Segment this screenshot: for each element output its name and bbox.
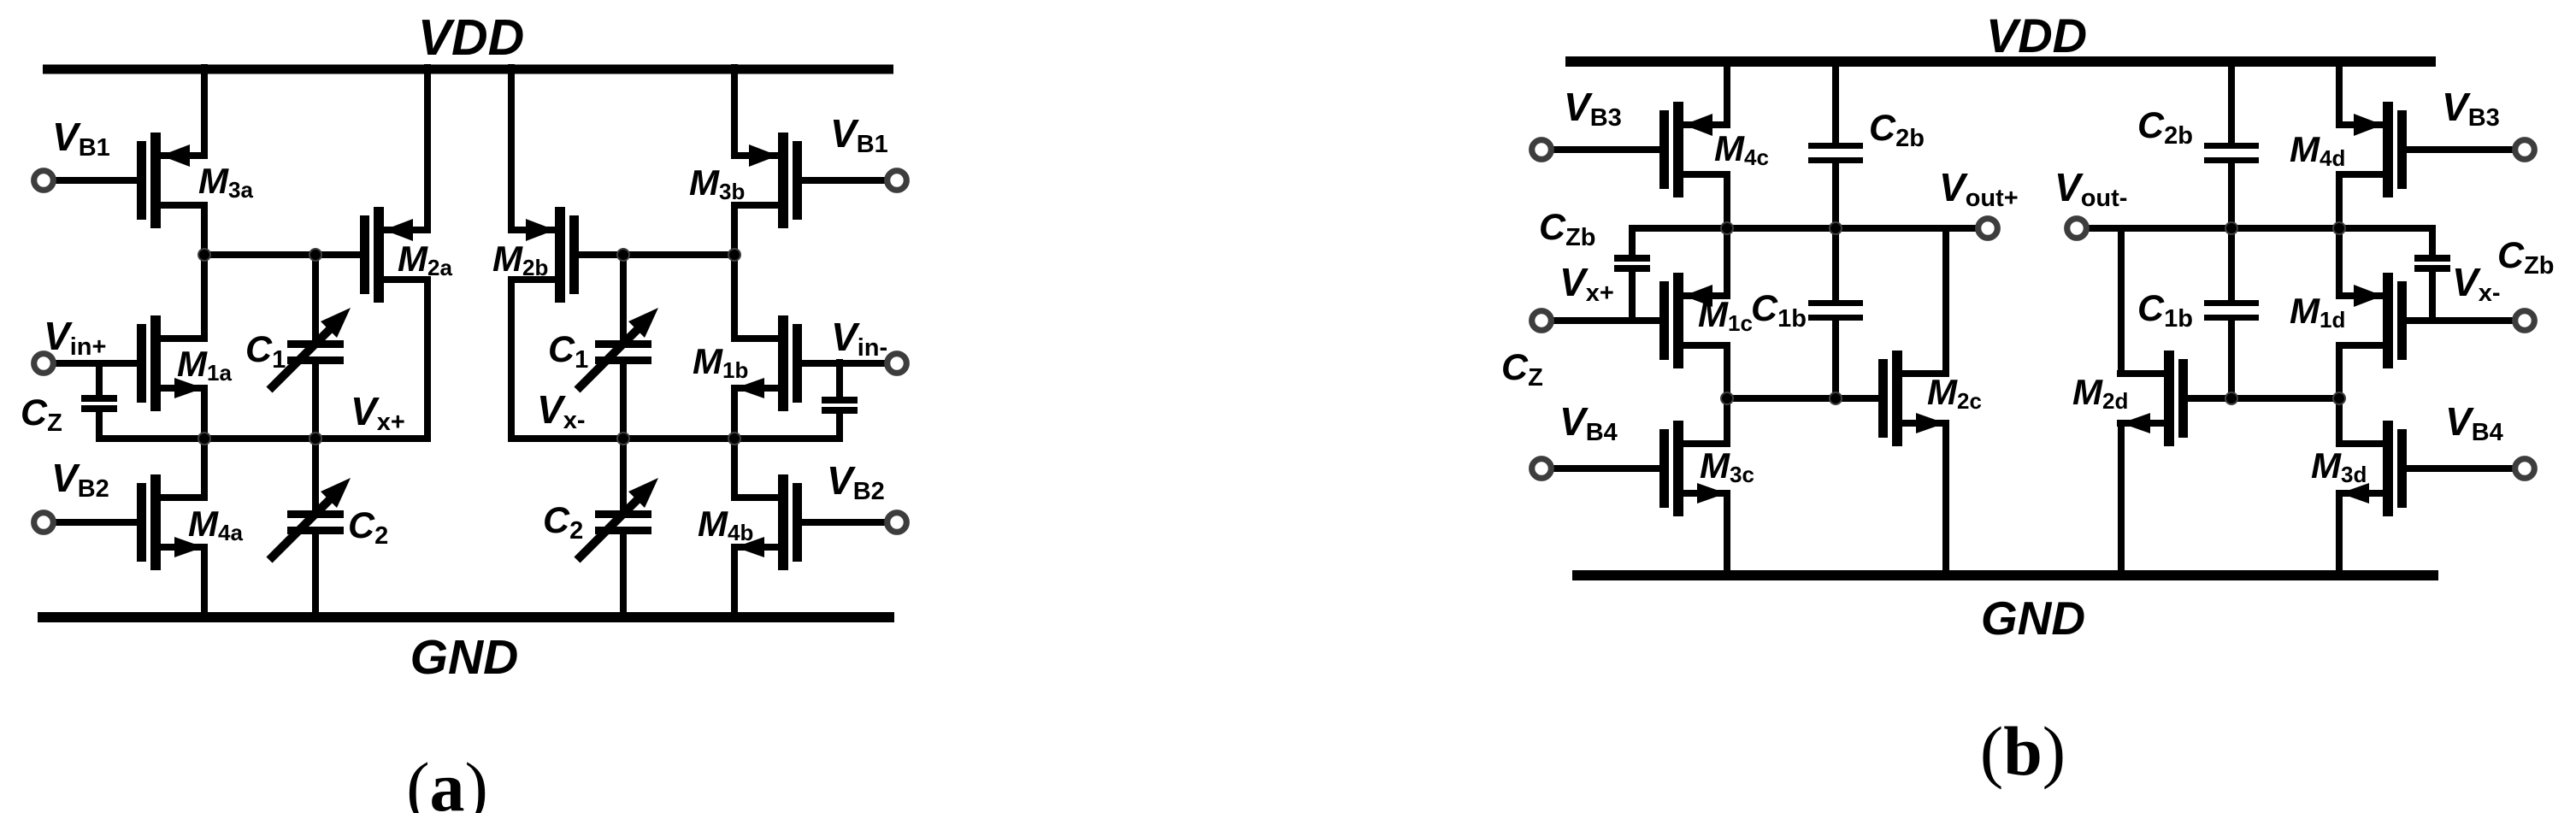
terminal Vx+ (b) <box>1532 311 1552 331</box>
junction node A7 Vx- (729,513) <box>617 433 629 445</box>
wire M4d gate lead <box>2407 146 2525 153</box>
wire CZb right to Vx- lead <box>2429 270 2436 324</box>
wire node row M3a-M2a gate (left) <box>201 251 360 258</box>
svg-text:VB2: VB2 <box>51 456 109 503</box>
wire M3c source to GND <box>1724 490 1730 580</box>
junction node A6 Vx+ (369,513) <box>309 433 321 445</box>
wire M3d source to GND <box>2336 490 2343 580</box>
ground rail GND (a) <box>38 612 894 622</box>
svg-text:M2b: M2b <box>492 239 548 280</box>
svg-text:VB3: VB3 <box>1564 85 1622 132</box>
wire M1d gate lead (Vx-) <box>2407 317 2525 324</box>
svg-text:VB4: VB4 <box>1559 399 1618 446</box>
svg-text:C2b: C2b <box>1869 108 1925 152</box>
capacitor C2b right <box>2204 143 2259 163</box>
svg-text:Vx-: Vx- <box>537 387 585 434</box>
svg-text:Vx+: Vx+ <box>1559 260 1614 307</box>
junction node A5 Vx+ (239,513) <box>198 433 210 445</box>
svg-text:GND: GND <box>1981 592 2085 645</box>
wire C1 left to C2 left <box>312 364 319 511</box>
wire node Vx+ row <box>96 435 431 442</box>
junction node B2 (2147,267) <box>1830 222 1842 234</box>
wire M2b drain to node Vx- <box>508 276 515 440</box>
terminal Vin- <box>887 354 907 374</box>
svg-text:M4a: M4a <box>188 504 243 545</box>
svg-text:C1: C1 <box>548 329 588 374</box>
wire CZb left to Vx+ lead <box>1629 270 1636 324</box>
power rail VDD (a) <box>43 65 893 74</box>
svg-text:M3b: M3b <box>689 162 745 204</box>
svg-text:Vin-: Vin- <box>831 315 887 362</box>
terminal VB3 right <box>2515 140 2535 160</box>
svg-text:VDD: VDD <box>1986 9 2087 62</box>
svg-text:VB1: VB1 <box>830 111 888 158</box>
wire M1a gate lead (Vin+) <box>44 360 137 367</box>
capacitor CZb right <box>2414 255 2450 272</box>
wire M4a gate lead <box>44 519 137 526</box>
junction node B6 (2147,466) <box>1830 392 1842 404</box>
transistor M1c (PMOS) <box>1659 273 1730 368</box>
capacitor C2b left <box>1808 143 1863 163</box>
capacitor C1b left <box>1808 300 1863 321</box>
svg-text:CZ: CZ <box>21 392 62 437</box>
transistor M3a (PMOS) <box>137 133 208 228</box>
capacitor C1b right <box>2204 300 2259 321</box>
wire CZ bottom to node Vx+ row <box>96 412 103 442</box>
wire Vout- row to M2d drain <box>2118 225 2125 377</box>
junction node B8 (2736,466) <box>2333 392 2345 404</box>
terminal Vx- (b) <box>2515 311 2535 331</box>
transistor M3b (PMOS) <box>731 133 802 228</box>
wire VDD to M2b source <box>508 64 515 233</box>
wire M3d gate lead <box>2407 465 2525 472</box>
wire Vin- to CZ right top <box>836 359 843 397</box>
varactor C2 left <box>269 478 351 560</box>
wire M1c gate lead (Vx+) <box>1541 317 1659 324</box>
wire row2 right (M2d gate) <box>2188 395 2343 402</box>
wire CZ right bottom to node Vx- row <box>836 414 843 442</box>
wire M1a source to M4a drain <box>201 385 208 501</box>
junction node A1 (239,298) <box>198 249 210 261</box>
transistor M2c (NMOS) <box>1878 351 1949 446</box>
wire node Vout+ row <box>1629 225 1976 232</box>
wire VDD to M4c source <box>1724 56 1730 128</box>
svg-text:CZ: CZ <box>1501 347 1543 392</box>
wire VDD to M3a drain <box>201 64 208 159</box>
junction node A8 Vx- (861,513) <box>728 433 740 445</box>
wire M1c drain to M3c drain <box>1724 342 1730 447</box>
terminal VB3 left <box>1532 140 1552 160</box>
capacitor CZ left <box>81 395 117 412</box>
svg-text:C1b: C1b <box>2137 288 2193 333</box>
transistor M3d (NMOS) <box>2336 421 2407 516</box>
capacitor CZ right <box>822 397 858 414</box>
transistor M1a (NMOS) <box>137 315 208 411</box>
wire C2 right to GND <box>620 534 627 622</box>
svg-text:(a): (a) <box>406 748 488 813</box>
svg-text:Vx+: Vx+ <box>351 389 405 436</box>
svg-text:Vout+: Vout+ <box>1939 165 2019 212</box>
svg-text:M4c: M4c <box>1714 128 1769 170</box>
transistor M4b (NMOS) <box>731 474 802 570</box>
svg-text:GND: GND <box>410 630 519 685</box>
wire M3b gate lead <box>802 177 897 184</box>
junction node B1 (2020,267) <box>1721 222 1733 234</box>
svg-text:VB4: VB4 <box>2445 399 2503 446</box>
svg-text:VDD: VDD <box>418 9 525 66</box>
wire M4c gate lead <box>1541 146 1659 153</box>
transistor M1d (PMOS) <box>2336 273 2407 368</box>
varactor C2 right <box>577 478 658 560</box>
transistor M2b (PMOS) <box>508 207 579 303</box>
wire row1 to C1 right <box>620 251 627 340</box>
wire Vout+ row to M2c drain <box>1942 225 1949 377</box>
svg-text:(b): (b) <box>1980 712 2066 790</box>
terminal VB1 left <box>34 171 54 191</box>
wire VDD to M3b drain <box>731 64 738 159</box>
svg-text:M2d: M2d <box>2072 372 2128 414</box>
junction node B4 (2736,267) <box>2333 222 2345 234</box>
wire M3b source to M1b drain <box>731 202 738 342</box>
wire VDD to C2b left <box>1832 56 1839 144</box>
terminal Vin+ <box>34 354 54 374</box>
terminal VB4 left <box>1532 459 1552 479</box>
power rail VDD (b) <box>1565 56 2436 67</box>
wire M2c source to GND <box>1942 420 1949 580</box>
transistor M4d (PMOS) <box>2336 102 2407 197</box>
wire M4d drain to M1d source <box>2336 171 2343 299</box>
wire M4b gate lead <box>802 519 897 526</box>
wire VDD to M2a source <box>424 64 431 233</box>
wire M4b source to GND <box>731 544 738 622</box>
transistor M3c (NMOS) <box>1659 421 1730 516</box>
transistor M2a (PMOS) <box>360 207 431 303</box>
wire VDD to C2b right <box>2228 56 2235 144</box>
svg-text:CZb: CZb <box>2497 235 2555 280</box>
terminal VB4 right <box>2515 459 2535 479</box>
junction node A2 (369,298) <box>309 249 321 261</box>
wire Vout+ row to CZb left <box>1629 225 1636 256</box>
svg-text:VB3: VB3 <box>2442 85 2500 132</box>
svg-text:Vx-: Vx- <box>2452 260 2500 307</box>
ground rail GND (b) <box>1572 570 2438 580</box>
wire M3a source to M1a drain <box>201 202 208 342</box>
svg-text:C1: C1 <box>245 329 286 374</box>
wire C2 left to GND <box>312 534 319 622</box>
varactor C1 left <box>269 308 351 390</box>
wire Vout- row to CZb right <box>2429 225 2436 256</box>
svg-text:M1a: M1a <box>177 344 232 386</box>
wire Vin+ to CZ top <box>96 360 103 395</box>
svg-text:C2b: C2b <box>2137 105 2193 150</box>
wire C1 right to C2 right <box>620 364 627 511</box>
svg-text:C1b: C1b <box>1751 288 1807 333</box>
junction node B3 (2610,267) <box>2225 222 2237 234</box>
svg-text:Vout-: Vout- <box>2054 165 2127 212</box>
capacitor CZb left <box>1614 255 1650 272</box>
svg-text:C2: C2 <box>348 505 388 550</box>
junction node B5 (2020,466) <box>1721 392 1733 404</box>
wire M2a drain to node Vx+ <box>424 276 431 440</box>
svg-text:M2a: M2a <box>398 239 452 280</box>
transistor M4c (PMOS) <box>1659 102 1730 197</box>
wire C2b left to C1b left <box>1832 162 1839 303</box>
varactor C1 right <box>577 308 658 390</box>
svg-text:M1b: M1b <box>693 341 748 383</box>
wire node row M3b-M2b gate (right) <box>579 251 738 258</box>
wire M1b source to M4b drain <box>731 385 738 501</box>
wire C1b left to row2 <box>1832 320 1839 402</box>
wire node Vx- row <box>508 435 843 442</box>
wire M1d drain to M3d drain <box>2336 342 2343 447</box>
wire node Vout- row <box>2089 225 2436 232</box>
wire M3c gate lead <box>1541 465 1659 472</box>
transistor M1b (NMOS) <box>731 315 802 411</box>
svg-text:VB1: VB1 <box>52 115 110 162</box>
svg-text:M2c: M2c <box>1927 372 1982 414</box>
terminal VB2 left <box>34 513 54 533</box>
junction node B7 (2610,466) <box>2225 392 2237 404</box>
wire C2b right to C1b right <box>2228 162 2235 303</box>
wire M1b gate lead (Vin-) <box>802 360 897 367</box>
svg-text:M4b: M4b <box>698 504 753 545</box>
svg-text:M1c: M1c <box>1698 294 1753 336</box>
terminal Vout- <box>2067 219 2087 239</box>
svg-text:M4d: M4d <box>2290 129 2345 171</box>
junction node A3 (729,298) <box>617 249 629 261</box>
svg-text:M3a: M3a <box>198 161 253 203</box>
transistor M4a (NMOS) <box>137 474 208 570</box>
wire M4a source to GND <box>201 544 208 622</box>
wire M2d source to GND <box>2118 420 2125 580</box>
wire M4c drain to M1c source <box>1724 171 1730 299</box>
terminal Vout+ <box>1978 219 1998 239</box>
svg-text:VB2: VB2 <box>827 458 885 505</box>
svg-text:CZb: CZb <box>1539 207 1596 251</box>
wire M3a gate lead <box>44 177 137 184</box>
terminal VB2 right <box>887 513 907 533</box>
wire VDD to M4d source <box>2336 56 2343 128</box>
transistor M2d (NMOS) <box>2117 351 2188 446</box>
terminal VB1 right <box>887 171 907 191</box>
wire C1b right to row2 <box>2228 320 2235 402</box>
junction node A4 (861,298) <box>728 249 740 261</box>
wire row2 left (M2c gate) <box>1724 395 1878 402</box>
svg-text:M3d: M3d <box>2311 445 2367 487</box>
wire row1 to C1 left <box>312 251 319 340</box>
svg-text:M3c: M3c <box>1700 445 1754 487</box>
svg-text:C2: C2 <box>543 500 583 545</box>
svg-text:Vin+: Vin+ <box>44 314 106 361</box>
